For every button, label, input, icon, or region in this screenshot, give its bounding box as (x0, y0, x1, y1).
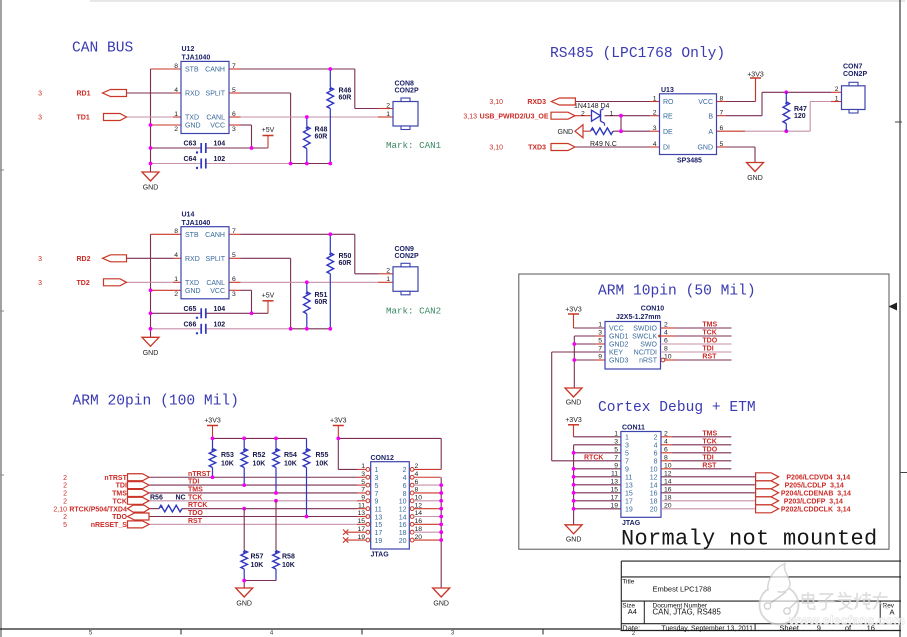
wire TXD stub (173, 281, 181, 283)
wire gnd bus CON11 (573, 445, 575, 525)
svg-text:3: 3 (653, 125, 657, 132)
pin 8 circle (410, 491, 414, 495)
wire SPLIT net (241, 93, 291, 164)
port LCD signal (756, 481, 779, 489)
wire RST stub (665, 359, 675, 361)
wire TDI stub (357, 484, 366, 486)
wire RST net (149, 523, 357, 525)
wire DE stub (650, 130, 660, 132)
svg-text:1: 1 (386, 276, 390, 283)
junction (439, 522, 443, 526)
wire pin20 stub (414, 539, 441, 541)
wire split cap net 3 (291, 163, 331, 165)
svg-text:GND: GND (747, 175, 763, 182)
wire RST net (675, 359, 732, 361)
wire gnd pin stub (596, 335, 605, 337)
svg-text:9: 9 (598, 354, 602, 361)
no-connect X (343, 530, 348, 535)
wire vertical GND bus (150, 69, 152, 172)
IC U14 TJA1040 (174, 211, 236, 298)
svg-text:P205/LCDLP 3,14: P205/LCDLP 3,14 (785, 483, 844, 490)
ground (142, 337, 159, 357)
svg-text:RST: RST (702, 354, 717, 361)
svg-text:1: 1 (386, 111, 390, 118)
svg-text:8: 8 (720, 95, 724, 102)
svg-text:TMS: TMS (702, 430, 717, 437)
resistor R53 (209, 438, 234, 477)
svg-text:TCK: TCK (113, 498, 127, 505)
svg-text:8: 8 (654, 459, 658, 466)
port RXD3 (551, 98, 575, 105)
wire B net (726, 92, 831, 115)
svg-text:5: 5 (614, 447, 618, 454)
svg-text:4: 4 (270, 630, 274, 636)
svg-text:5: 5 (63, 522, 67, 529)
svg-text:10K: 10K (284, 460, 297, 467)
port TD1 (104, 114, 127, 121)
svg-text:TDO: TDO (112, 514, 127, 521)
connector CON10 J2X5 (598, 305, 672, 369)
junction (572, 499, 576, 503)
svg-text:ARM 10pin (50 Mil): ARM 10pin (50 Mil) (598, 284, 756, 300)
svg-text:TDI: TDI (188, 479, 199, 486)
svg-text:VCC: VCC (210, 123, 225, 130)
svg-text:5: 5 (89, 630, 93, 636)
svg-text:3: 3 (625, 443, 629, 450)
wire RXD3 net (575, 101, 650, 103)
capacitor C64 (184, 156, 226, 169)
wire pin16 stub (414, 523, 441, 525)
svg-text:3: 3 (232, 291, 236, 298)
junction (619, 129, 623, 133)
wire TDO stub (357, 516, 366, 518)
svg-text:TCK: TCK (702, 330, 716, 337)
pin 13 circle (366, 515, 370, 519)
svg-text:9: 9 (614, 463, 618, 470)
svg-text:4: 4 (174, 252, 178, 259)
svg-text:CANH: CANH (205, 232, 225, 239)
svg-text:11: 11 (375, 506, 382, 513)
svg-text:TXD: TXD (185, 280, 199, 287)
svg-text:2: 2 (581, 110, 585, 117)
svg-text:+5V: +5V (262, 292, 275, 299)
svg-text:RST: RST (702, 462, 717, 469)
wire pin12 stub (414, 508, 441, 510)
wire pulldown gnd net (244, 581, 276, 589)
svg-text:1: 1 (625, 435, 629, 442)
svg-text:CON12: CON12 (371, 455, 394, 462)
svg-text:Mark: CAN1: Mark: CAN1 (386, 140, 442, 151)
svg-text:R48: R48 (315, 127, 328, 134)
svg-text:CON2P: CON2P (843, 71, 867, 78)
svg-text:R46: R46 (339, 88, 352, 95)
svg-text:RTCK: RTCK (188, 502, 207, 509)
svg-text:104: 104 (214, 141, 226, 148)
svg-text:+3V3: +3V3 (565, 417, 582, 424)
wire GND stub (717, 146, 727, 148)
svg-text:DI: DI (663, 145, 670, 152)
svg-text:TMS: TMS (112, 491, 127, 498)
pin 2 circle (410, 468, 414, 472)
wire gnd pin (574, 359, 596, 361)
junction (274, 491, 278, 495)
wire LCD net (661, 508, 756, 510)
svg-text:Normaly not mounted: Normaly not mounted (621, 527, 878, 552)
svg-text:3: 3 (38, 115, 42, 122)
svg-text:C66: C66 (184, 321, 197, 328)
svg-text:3: 3 (598, 330, 602, 337)
wire TCK stub (661, 335, 676, 337)
svg-text:2: 2 (653, 110, 657, 117)
svg-text:7: 7 (720, 110, 724, 117)
port RTCK/P504/TXD4 (128, 505, 150, 512)
svg-text:TDI: TDI (702, 454, 713, 461)
svg-text:5: 5 (375, 483, 379, 490)
svg-text:3,13: 3,13 (463, 113, 477, 120)
wire RST net CON11 (672, 468, 731, 470)
wire CANH stub (229, 233, 241, 235)
svg-text:P204/LCDENAB 3,14: P204/LCDENAB 3,14 (781, 491, 851, 498)
svg-text:3: 3 (38, 91, 42, 98)
wire CANH to CON pin2 (378, 273, 393, 275)
svg-text:1: 1 (174, 111, 178, 118)
+3V3 power symbol (747, 72, 764, 102)
junction (784, 90, 788, 94)
svg-text:R53: R53 (221, 452, 234, 459)
svg-text:5: 5 (598, 338, 602, 345)
svg-text:TXD3: TXD3 (528, 145, 546, 152)
port TXD3 (551, 144, 575, 151)
svg-text:GND: GND (697, 145, 713, 152)
wire gnd pin CON11 (574, 468, 621, 470)
svg-text:ARM 20pin (100 Mil): ARM 20pin (100 Mil) (73, 394, 239, 410)
wire TCK net CON11 (672, 444, 731, 446)
wire vertical GND bus (150, 234, 152, 337)
svg-text:17: 17 (375, 530, 383, 537)
+5V power symbol (262, 292, 275, 313)
connector CON7 CON2P (835, 64, 868, 113)
svg-text:CON8: CON8 (395, 81, 415, 88)
svg-text:15: 15 (610, 487, 618, 494)
svg-text:RD1: RD1 (77, 91, 91, 98)
junction (211, 475, 215, 479)
junction (439, 507, 443, 511)
svg-text:GND: GND (558, 129, 574, 136)
svg-text:nRESET_S: nRESET_S (91, 522, 128, 529)
pin 16 circle (410, 522, 414, 526)
junction (274, 499, 278, 503)
wire RXD net RD2 (127, 257, 174, 259)
wire LCD net (661, 476, 756, 478)
port USB_PWRD2/U3_OE (551, 112, 575, 119)
wire TDO net (661, 343, 732, 345)
svg-text:13: 13 (625, 483, 633, 490)
svg-text:7: 7 (598, 346, 602, 353)
svg-text:8: 8 (403, 491, 407, 498)
svg-text:GND: GND (143, 350, 159, 357)
svg-text:6: 6 (654, 451, 658, 458)
svg-text:8: 8 (174, 228, 178, 235)
svg-text:11: 11 (611, 471, 618, 478)
svg-text:1: 1 (375, 467, 379, 474)
svg-text:TDO: TDO (188, 510, 203, 517)
resistor R49 N.C (591, 128, 614, 135)
junction (439, 515, 443, 519)
svg-text:11: 11 (625, 475, 632, 482)
wire A net (745, 130, 810, 132)
wire pin6 stub (414, 484, 441, 486)
wire LCD net (661, 484, 756, 486)
svg-text:R47: R47 (794, 106, 807, 113)
svg-text:120: 120 (794, 113, 806, 120)
wire B to CON7 pin2 (831, 91, 842, 93)
wire A net up (810, 102, 831, 132)
junction (572, 483, 576, 487)
svg-text:4: 4 (654, 443, 658, 450)
port LCD signal (756, 505, 779, 513)
svg-text:VCC: VCC (698, 99, 713, 106)
resistor R47 (783, 92, 807, 131)
svg-text:RST: RST (188, 518, 203, 525)
svg-text:A: A (708, 129, 713, 136)
wire KEY net (552, 351, 605, 353)
svg-text:CAN BUS: CAN BUS (72, 41, 134, 57)
svg-text:TCK: TCK (188, 494, 202, 501)
wire STB net (pin8 to vertical bus) (151, 68, 182, 70)
port TDI (128, 482, 150, 489)
svg-text:102: 102 (214, 321, 226, 328)
wire TDI net CON11 (672, 460, 731, 462)
ground (747, 163, 764, 183)
wire R58 top (275, 501, 277, 551)
svg-text:1: 1 (610, 111, 614, 118)
resistor R46 (327, 69, 351, 164)
svg-text:CON11: CON11 (622, 425, 645, 432)
wire TDO net (149, 516, 357, 518)
wire GND pin2 (151, 289, 182, 291)
wire STB net (pin8 to vertical bus) (151, 233, 182, 235)
svg-text:9: 9 (375, 499, 379, 506)
svg-text:SWCLK: SWCLK (632, 334, 657, 341)
svg-text:1: 1 (835, 95, 839, 102)
svg-text:6: 6 (720, 125, 724, 132)
wire nc stub (347, 539, 366, 541)
wire OE to diode (575, 115, 592, 117)
resistor R48 (304, 117, 328, 164)
wire 3V3 to pin1 (574, 327, 606, 329)
wire gnd pin (574, 343, 596, 345)
wire RXD stub (173, 92, 181, 94)
svg-text:JTAG: JTAG (371, 552, 390, 559)
wire DI stub (650, 146, 660, 148)
svg-text:60R: 60R (315, 134, 328, 141)
wire TCK net (675, 335, 732, 337)
wire gnd pin CON11 (574, 492, 621, 494)
pin 3 circle (366, 475, 370, 479)
junction (149, 146, 153, 150)
svg-text:nRST: nRST (639, 358, 658, 365)
wire CANH net (241, 69, 379, 109)
svg-text:GND: GND (185, 123, 201, 130)
svg-text:7: 7 (232, 228, 236, 235)
svg-text:TCK: TCK (702, 438, 716, 445)
junction (572, 451, 576, 455)
title block (621, 561, 901, 632)
svg-text:5: 5 (720, 141, 724, 148)
svg-text:5: 5 (232, 252, 236, 259)
svg-text:DE: DE (663, 129, 673, 136)
junction (149, 162, 153, 166)
wire RTCK stub (357, 508, 366, 510)
svg-text:11: 11 (358, 502, 365, 509)
svg-text:R56: R56 (150, 495, 163, 502)
svg-text:10: 10 (399, 499, 407, 506)
svg-text:20: 20 (650, 507, 658, 514)
wire pin8 stub (414, 492, 441, 494)
svg-text:10K: 10K (282, 562, 295, 569)
svg-text:10K: 10K (221, 460, 234, 467)
junction (149, 311, 153, 315)
ground (565, 525, 582, 544)
wire VCC net (241, 290, 252, 313)
resistor R54 (273, 438, 297, 493)
svg-text:9: 9 (625, 467, 629, 474)
svg-text:CON7: CON7 (843, 64, 863, 71)
wire gnd pin stub (596, 343, 605, 345)
svg-text:2: 2 (835, 86, 839, 93)
svg-text:Date:: Date: (622, 623, 640, 632)
svg-text:SWDIO: SWDIO (633, 326, 657, 333)
svg-text:TMS: TMS (702, 322, 717, 329)
junction (328, 232, 332, 236)
wire 3V3 rail (213, 437, 307, 439)
junction (572, 507, 576, 511)
wire GND net (726, 147, 755, 163)
wire gnd pin CON11 (574, 484, 621, 486)
svg-text:STB: STB (185, 67, 199, 74)
wire nTRST stub (357, 476, 366, 478)
svg-text:17: 17 (610, 495, 618, 502)
watermark url text (788, 613, 905, 628)
junction (289, 162, 293, 166)
svg-text:NC: NC (176, 495, 186, 502)
wire pin4 stub (414, 476, 441, 478)
svg-text:GND: GND (433, 601, 449, 608)
svg-text:GND2: GND2 (609, 342, 629, 349)
svg-text:17: 17 (625, 499, 633, 506)
pin 4 circle (410, 475, 414, 479)
wire TDI net (149, 484, 357, 486)
svg-text:CON9: CON9 (395, 246, 415, 253)
svg-text:TJA1040: TJA1040 (182, 220, 211, 227)
wire C decoupling net (151, 147, 269, 149)
svg-text:TXD: TXD (185, 115, 199, 122)
wire 3V3 to pin1 CON11 (574, 436, 621, 438)
wire TMS stub CON11 (661, 436, 672, 438)
junction (274, 437, 278, 441)
wire LCD net (661, 492, 756, 494)
svg-text:RXD3: RXD3 (527, 99, 546, 106)
wire TXD3 net (575, 146, 650, 148)
svg-text:7: 7 (625, 459, 629, 466)
wire TDI stub CON11 (661, 460, 672, 462)
svg-text:TDO: TDO (702, 446, 717, 453)
svg-text:R55: R55 (316, 452, 329, 459)
resistor R57 (241, 551, 264, 581)
wire split cap net 3 (291, 328, 331, 330)
ground (236, 588, 253, 608)
resistor R52 (241, 438, 266, 485)
wire SPLIT net (241, 258, 291, 329)
svg-text:1: 1 (361, 463, 365, 470)
port nTRST (128, 474, 150, 481)
svg-text:SPLIT: SPLIT (206, 91, 226, 98)
resistor R56 NC (150, 495, 186, 512)
port RD1 (103, 90, 127, 97)
junction (619, 114, 623, 118)
wire pin10 stub (414, 500, 441, 502)
svg-text:2: 2 (654, 435, 658, 442)
svg-text:2: 2 (403, 467, 407, 474)
junction (572, 491, 576, 495)
svg-text:19: 19 (610, 503, 618, 510)
wire TCK net (149, 500, 357, 502)
port TD2 (104, 279, 127, 286)
svg-text:4: 4 (174, 87, 178, 94)
svg-text:1: 1 (174, 276, 178, 283)
svg-text:+3V3: +3V3 (747, 72, 764, 79)
wire TCK stub CON11 (661, 444, 672, 446)
svg-text:7: 7 (361, 487, 365, 494)
wire CANH net (241, 234, 379, 273)
svg-text:2: 2 (63, 475, 67, 482)
wire gnd pin CON11 (574, 508, 621, 510)
svg-text:+3V3: +3V3 (565, 307, 582, 314)
svg-text:7: 7 (614, 455, 618, 462)
svg-text:R51: R51 (315, 292, 328, 299)
pin 10 circle (410, 499, 414, 503)
junction (439, 491, 443, 495)
svg-text:JTAG: JTAG (622, 520, 641, 527)
svg-text:4: 4 (653, 141, 657, 148)
wire LCD net (661, 500, 756, 502)
svg-text:RTCK: RTCK (584, 454, 603, 461)
svg-text:12: 12 (399, 506, 407, 513)
svg-text:15: 15 (357, 518, 365, 525)
svg-text:RD2: RD2 (77, 256, 91, 263)
svg-text:1N4148 D4: 1N4148 D4 (574, 103, 610, 110)
svg-text:2: 2 (63, 483, 67, 490)
wire gnd bus (440, 477, 442, 588)
svg-text:U13: U13 (661, 87, 674, 94)
wire C decoupling net (151, 312, 269, 314)
svg-text:2,10: 2,10 (53, 506, 67, 513)
svg-text:6: 6 (232, 276, 236, 283)
svg-text:10K: 10K (251, 562, 264, 569)
svg-text:P203/LCDFP 3,14: P203/LCDFP 3,14 (784, 499, 843, 506)
svg-text:9: 9 (361, 495, 365, 502)
svg-text:RO: RO (663, 99, 674, 106)
IC U13 SP3485 (653, 87, 724, 165)
svg-text:2: 2 (174, 126, 178, 133)
junction (250, 146, 254, 150)
wire VCC stub (717, 101, 727, 103)
wire A to CON7 pin1 (831, 101, 842, 103)
svg-text:104: 104 (214, 306, 226, 313)
pin 9 circle (366, 499, 370, 503)
wire RO stub (650, 101, 660, 103)
svg-text:Tuesday, September 13, 2011: Tuesday, September 13, 2011 (662, 625, 754, 632)
